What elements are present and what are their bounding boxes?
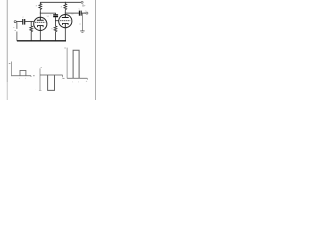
waveform 1 baseline (12, 75, 32, 77)
V2 grid (dashed) (60, 20, 70, 22)
capacitor C3 (output coupling) (79, 11, 81, 16)
label input return (15, 30, 16, 32)
ground (80, 31, 84, 32)
wire input to C1 (16, 21, 22, 23)
svg-text:C: C (79, 9, 81, 11)
svg-text:t: t (73, 80, 74, 83)
label wf3 end (86, 80, 87, 82)
waveform 1 axis (11, 62, 13, 77)
label waveform 2 top (41, 67, 42, 69)
svg-text:C: C (50, 15, 52, 17)
waveform 1 pulse (20, 70, 26, 75)
waveform 3 pulse (73, 50, 79, 78)
V2 cathode (63, 23, 69, 27)
resistor R1 (plate load V1) (39, 2, 42, 10)
node V2 grid junction (55, 20, 56, 21)
wire load down-lead (81, 13, 83, 31)
terminal output (86, 12, 88, 14)
waveform 2 gate notch (48, 75, 55, 90)
node R3 top junction (31, 21, 32, 22)
V1 plate (37, 17, 44, 20)
tube V1 envelope (34, 17, 47, 30)
node output load junction (84, 13, 85, 14)
left column rule (6, 0, 8, 82)
tube V2 envelope (59, 15, 72, 28)
svg-text:R: R (51, 28, 53, 30)
svg-text:C: C (22, 17, 24, 19)
wire C1 to V1 grid (25, 21, 34, 23)
terminal input (14, 21, 16, 23)
label waveform 1 (9, 62, 11, 64)
node rail junction at R2 (65, 2, 66, 3)
label waveform 3 top (64, 47, 66, 49)
resistor R2 (plate load V2) (64, 2, 67, 14)
svg-text:V1: V1 (47, 16, 49, 18)
wire C2 to grid node (55, 17, 57, 21)
waveform 3 baseline (67, 77, 87, 79)
svg-text:e: e (13, 27, 15, 29)
svg-text:.: . (35, 89, 36, 91)
waveform 3 axis (66, 48, 68, 79)
waveform 3 end tick (86, 78, 88, 79)
V2 plate (62, 15, 69, 18)
capacitor C2 (coupling, horizontal plates) (53, 15, 58, 17)
V1 cathode (38, 26, 44, 31)
svg-text:t: t (25, 77, 26, 80)
wire B+ rail (40, 1, 81, 3)
wire input return (16, 22, 18, 41)
waveform 2 axis (39, 68, 41, 90)
wire V2 grid lead (56, 20, 60, 22)
V1 grid (dashed) (35, 21, 45, 23)
svg-text:R: R (61, 6, 63, 8)
node V2 plate junction (65, 13, 66, 14)
waveform 2 top line (40, 74, 63, 76)
wire coupling to C2 (40, 13, 55, 14)
wire ground bus (17, 40, 66, 42)
waveform 1 end tick (30, 76, 32, 77)
svg-text:t: t (19, 77, 20, 80)
svg-text:V2: V2 (71, 14, 73, 16)
waveform 2 axis bottom tick (39, 89, 42, 91)
label zero wf3 (62, 77, 64, 79)
waveform 2 end tick (62, 75, 64, 77)
wire C3 to output terminal (82, 12, 86, 14)
svg-text:B+: B+ (82, 3, 86, 7)
terminal B+ (81, 1, 83, 3)
resistor R4 (grid leak V2) (54, 21, 57, 41)
right column rule (95, 0, 97, 100)
resistor R3 (grid leak V1) (30, 22, 33, 41)
svg-text:t: t (78, 80, 79, 83)
wire output from plate (65, 12, 79, 14)
node V1 plate junction (40, 13, 41, 14)
svg-text:R: R (36, 6, 38, 8)
svg-text:.: . (61, 79, 62, 81)
label zero wf2 (33, 75, 35, 77)
wire V2 cathode to bus (64, 28, 66, 41)
wire V1 cathode to bus (39, 31, 41, 41)
wire V1 plate lead (39, 10, 41, 17)
capacitor C1 (input coupling) (23, 19, 25, 25)
label load (79, 23, 80, 25)
